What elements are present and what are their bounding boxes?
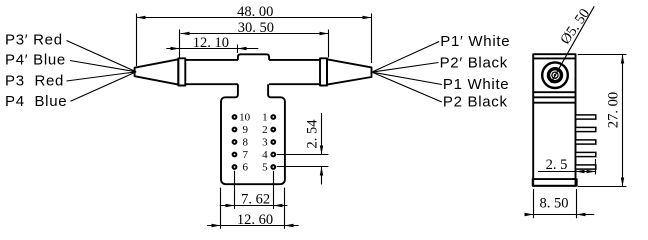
svg-text:8. 50: 8. 50 — [540, 195, 569, 211]
svg-text:3: 3 — [262, 136, 268, 148]
svg-text:P1′ White: P1′ White — [440, 33, 510, 50]
svg-text:P1 White: P1 White — [443, 76, 509, 93]
svg-text:P3 Red: P3 Red — [5, 73, 64, 90]
svg-text:8: 8 — [243, 136, 249, 148]
svg-text:2: 2 — [262, 124, 268, 136]
svg-text:12. 60: 12. 60 — [237, 212, 273, 228]
svg-text:48. 00: 48. 00 — [237, 4, 273, 20]
svg-text:2. 54: 2. 54 — [305, 119, 321, 149]
svg-text:4: 4 — [262, 149, 268, 161]
svg-text:1: 1 — [262, 111, 268, 123]
svg-text:10: 10 — [239, 111, 251, 123]
svg-text:27. 00: 27. 00 — [605, 92, 621, 128]
svg-text:5: 5 — [262, 161, 268, 173]
svg-text:P2′ Black: P2′ Black — [440, 54, 508, 71]
svg-text:P2 Black: P2 Black — [443, 94, 508, 111]
svg-text:7. 62: 7. 62 — [241, 191, 270, 207]
svg-text:7: 7 — [243, 149, 249, 161]
svg-text:2. 5: 2. 5 — [546, 157, 568, 173]
svg-text:30. 50: 30. 50 — [238, 20, 274, 36]
svg-text:P4′ Blue: P4′ Blue — [5, 52, 66, 69]
svg-text:6: 6 — [243, 161, 249, 173]
svg-text:9: 9 — [243, 124, 249, 136]
svg-text:P4 Blue: P4 Blue — [5, 93, 67, 110]
svg-text:12. 10: 12. 10 — [193, 35, 229, 51]
svg-text:P3′ Red: P3′ Red — [5, 32, 63, 49]
